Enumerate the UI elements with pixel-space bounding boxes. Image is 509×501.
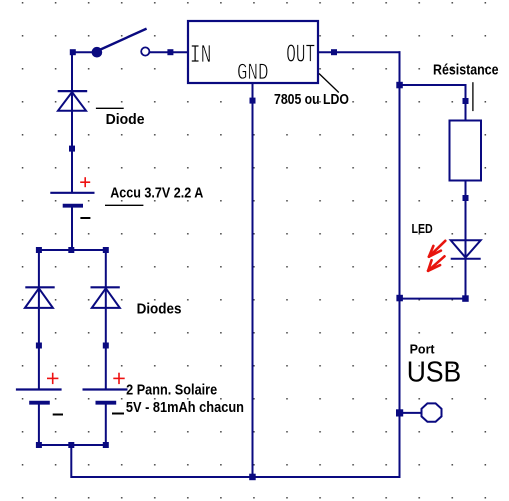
panel P1 minus sign [53, 414, 63, 416]
LED D4 triangle [451, 240, 481, 257]
panel P1 long plate [16, 388, 62, 390]
battery B1 plus sign [80, 177, 90, 187]
panel P2 minus sign [112, 413, 124, 415]
battery B1 minus sign [80, 217, 90, 219]
node: LED return corner square [462, 295, 469, 302]
wire: right solar branch upper vertical [105, 250, 107, 390]
wire: stub to USB connector [400, 412, 423, 414]
panel P2 plus sign [113, 373, 124, 384]
node: resistor branch junction square [396, 82, 403, 89]
svg-text:OUT: OUT [286, 40, 315, 70]
panel P1 short plate [29, 401, 50, 405]
battery B1 long plate [50, 192, 94, 194]
diode D2 cathode bar [25, 286, 54, 288]
wire: bottom rail horizontal [71, 476, 401, 478]
node: bottom rail center square [68, 442, 74, 448]
node: top rail center square [68, 247, 74, 253]
wire: battery to solar top rail [71, 206, 73, 251]
switch S1 pivot (filled circle) [92, 47, 103, 58]
svg-text:Port: Port [410, 343, 436, 357]
node: top-left junction square [70, 49, 76, 55]
node: USB junction square [396, 409, 403, 416]
resistor R1 body [450, 121, 482, 181]
wire: left column top vertical (node to diode) [71, 52, 73, 193]
svg-text:USB: USB [407, 357, 462, 389]
diode D1 cathode bar [58, 90, 87, 92]
wire: resistor top vertical [465, 85, 467, 121]
node: IN pin junction square [167, 49, 173, 55]
svg-text:Diode: Diode [106, 112, 145, 128]
svg-text:Diodes: Diodes [137, 302, 182, 318]
svg-text:5V - 81mAh chacun: 5V - 81mAh chacun [126, 400, 244, 416]
wire: solar bottom rail horizontal [38, 444, 107, 446]
node: right branch junction square [103, 343, 109, 349]
svg-text:LED: LED [412, 222, 433, 236]
USB connector octagon [422, 403, 442, 421]
LED light arrow 1 [429, 241, 445, 257]
wire: GND vertical from regulator to bottom rail [252, 83, 254, 478]
wire: top-left horizontal from node to switch [71, 51, 97, 53]
node: OUT pin junction square [331, 49, 337, 55]
svg-text:7805 ou LDO: 7805 ou LDO [274, 92, 349, 108]
node: GND pin junction square [250, 98, 256, 104]
node: bottom rail right square [103, 442, 109, 448]
wire: solar top rail horizontal [38, 249, 107, 251]
diode D3 triangle [92, 288, 120, 308]
node: top rail left square [36, 247, 42, 253]
node: bottom rail GND junction square [249, 474, 256, 481]
regulator U1 body (7805 ou LDO) [188, 21, 318, 83]
label leader line for Accu [105, 204, 143, 206]
LED light arrow 2 [428, 256, 444, 271]
wire: solar rail down to bottom bus [70, 445, 72, 478]
node: right bus LED junction square [396, 295, 403, 302]
wire: regulator OUT to right bus corner [318, 51, 401, 53]
diode D2 triangle [25, 288, 53, 308]
node: resistor top pin square [463, 98, 469, 104]
wire: LED return horizontal to right bus [400, 298, 466, 300]
svg-text:Résistance: Résistance [433, 63, 499, 79]
wire: switch contact to regulator IN pin [150, 51, 188, 53]
diode D3 cathode bar [91, 286, 120, 288]
label leader line for Résistance [472, 82, 474, 111]
panel P2 long plate [83, 388, 128, 390]
node: left branch junction square [36, 343, 42, 349]
panel P1 plus sign [47, 373, 58, 384]
panel P2 short plate [96, 401, 117, 405]
battery B1 short plate [63, 204, 83, 208]
node: bottom rail left square [36, 442, 42, 448]
node: top rail right square [103, 247, 109, 253]
node: resistor-LED junction square [463, 195, 469, 201]
svg-text:GND: GND [237, 60, 269, 86]
switch S1 open contact (circle) [141, 47, 149, 55]
label leader line for 7805 ou LDO [319, 74, 339, 93]
wire: right bus vertical [399, 51, 401, 478]
svg-text:2 Pann. Solaire: 2 Pann. Solaire [126, 382, 217, 398]
wire: left solar branch upper vertical [38, 250, 40, 390]
svg-text:Accu 3.7V 2.2 A: Accu 3.7V 2.2 A [110, 185, 203, 201]
diode D1 triangle [58, 92, 86, 111]
label leader line for Diode [96, 107, 124, 109]
wire: resistor bottom to LED [465, 181, 467, 300]
wire: right panel to bottom solar rail [105, 403, 107, 446]
wire: branch to resistor (horizontal) [400, 84, 467, 86]
switch S1 lever [101, 29, 147, 50]
svg-text:IN: IN [190, 40, 212, 70]
node: diode-battery junction square [69, 146, 75, 152]
wire: left panel to bottom solar rail [38, 403, 40, 446]
LED D4 cathode bar [451, 258, 481, 260]
